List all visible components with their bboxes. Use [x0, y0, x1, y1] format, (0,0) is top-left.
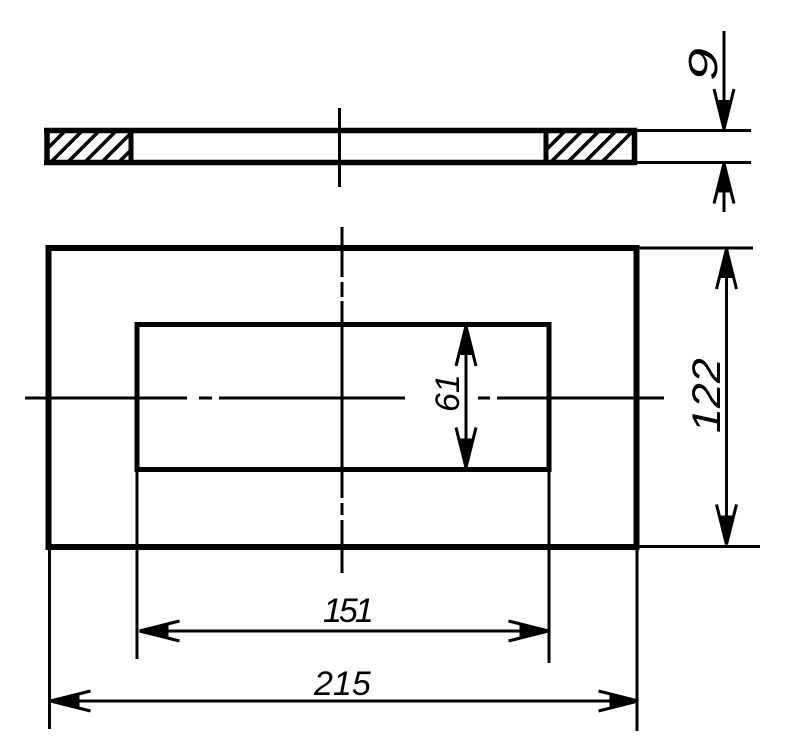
dimension 122 bottom arrow (down)	[717, 505, 737, 545]
dimension 9 lower arrow (up)	[714, 164, 734, 204]
outer rectangle	[49, 248, 637, 547]
svg-text:61: 61	[429, 374, 467, 412]
section view outline	[44, 128, 637, 165]
section centerline	[338, 108, 341, 187]
dimension 215 right arrow	[599, 691, 639, 711]
outer top extension line	[637, 247, 753, 250]
dimension 122 top arrow (up)	[717, 249, 737, 289]
section hatch right	[530, 126, 638, 166]
outer bottom extension line	[637, 545, 760, 548]
dimension 215 left arrow	[51, 691, 91, 711]
inner right extension line	[548, 472, 551, 663]
outer left extension line	[48, 550, 51, 729]
vertical centerline	[341, 227, 344, 573]
dimension 9 upper arrow (down)	[714, 89, 734, 129]
dimension 151 right arrow	[509, 621, 549, 641]
section bottom extension line	[634, 161, 751, 164]
dimension 122 line	[725, 252, 728, 541]
svg-text:151: 151	[323, 592, 372, 630]
horizontal centerline	[25, 397, 664, 400]
section hatch left	[30, 126, 155, 166]
inner left extension line	[136, 472, 139, 659]
svg-text:9: 9	[680, 48, 726, 81]
section top extension line	[634, 129, 751, 132]
dimension 151 line	[144, 630, 545, 633]
dimension 61 bottom arrow (down)	[456, 428, 476, 468]
section hatch boundary right	[544, 128, 549, 165]
dimension 61 line	[465, 330, 468, 463]
section hatch boundary left	[129, 128, 134, 165]
svg-text:122: 122	[684, 358, 728, 433]
dimension 151 left arrow	[140, 621, 180, 641]
inner rectangle	[137, 325, 549, 470]
svg-text:215: 215	[313, 665, 371, 703]
outer right extension line	[636, 550, 639, 731]
dimension 9 upper line	[723, 31, 726, 124]
dimension 61 top arrow (up)	[456, 326, 476, 366]
dimension 215 line	[55, 700, 634, 703]
dimension 9 lower line	[723, 168, 726, 212]
